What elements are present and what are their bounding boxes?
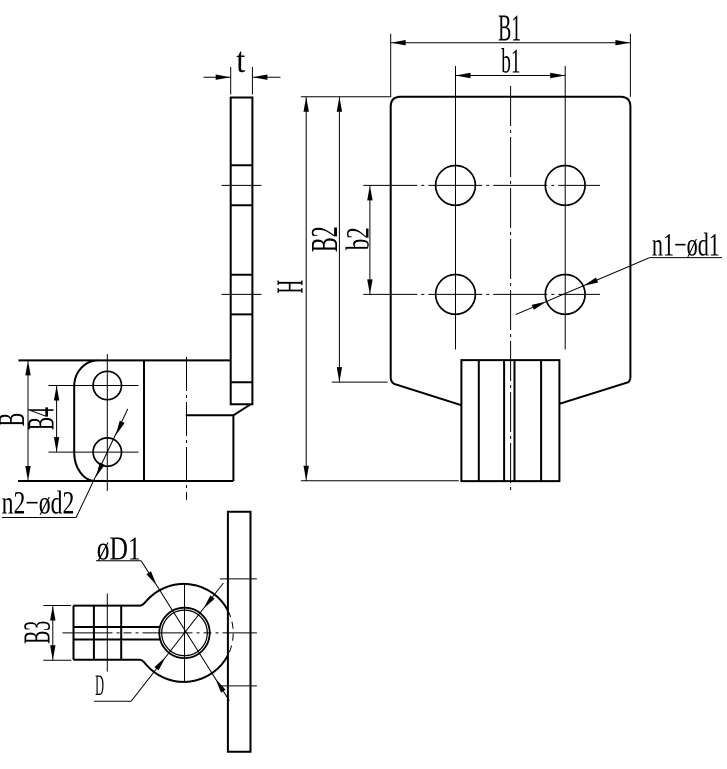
side view hole 1 bottom edge [231,204,253,206]
svg-text:t: t [236,40,245,80]
hole centerline vertical (middle view) [106,354,108,491]
boss axis centerline (middle view) [186,357,188,500]
hole d1 bottom-right [545,275,585,315]
pad tick lower [220,685,257,687]
dimension B2 line [337,97,342,382]
dimension t right arrow [252,75,280,80]
leader n2-d2 [76,409,128,518]
pad tick upper [220,578,257,580]
svg-text:B4: B4 [20,407,63,430]
svg-text:B2: B2 [303,226,346,252]
hole d2 upper [93,371,121,399]
dimension H line [304,97,309,481]
clamp body step edge [186,415,234,481]
tube block outline [461,360,559,481]
fork slot lower line [74,639,161,641]
clamp body top edge [18,359,230,361]
dimension D1 diagonal [141,561,229,701]
tube block edge 3 [514,360,516,481]
clamp body chamfer [233,404,250,415]
leader n1-d1 [516,258,650,315]
dimension b1 line [456,73,566,78]
dimension B4 line [54,386,59,453]
label ∅D1 [96,529,141,567]
fork bottom edge [74,660,147,665]
svg-text:n2−ød2: n2−ød2 [2,485,75,522]
side view hole 1 top edge [231,164,253,166]
dimension D diagonal [131,583,223,701]
hole d2 lower [93,438,121,466]
hole column line left [455,66,457,350]
label n2-∅d2 [2,485,76,522]
svg-text:B3: B3 [16,621,59,644]
clamp body inner edge [143,360,145,481]
clamp body bottom edge [18,480,233,482]
hole row line lower [363,293,600,295]
dimension B3 line [50,606,55,661]
front plate outline [391,97,631,379]
dimension H extension lines [301,97,459,481]
front plate right taper [560,378,631,404]
boss outer circle hidden arc [228,611,233,656]
front vertical centerline [510,86,512,491]
hole row line upper [363,184,600,186]
fork left edge [73,606,75,660]
boss horizontal centerline [63,632,257,634]
hole row line upper (middle view) [49,385,139,387]
boss outer circle solid arc lower [146,655,228,682]
hole column line right [564,66,566,350]
boss bore circle outer [159,608,209,658]
svg-text:D: D [95,669,104,702]
dimension B2 extension line [332,381,388,383]
fork hole edge left [93,606,95,660]
clamp body lobe outline [74,360,98,481]
fork top edge [74,601,147,605]
fork hole centerline [106,594,108,672]
hole row line lower (middle view) [49,451,139,453]
label D [94,669,131,702]
side view hole 2 top edge [231,274,253,276]
dimension t extension lines [231,67,253,95]
fork hole edge right [120,606,122,660]
boss outer circle solid arc upper [146,584,228,611]
side view hole 2 bottom edge [231,313,253,315]
tube block edge 4 [540,360,542,481]
side view hole row 2 centerline [222,293,262,295]
boss vertical centerline [184,584,186,683]
svg-text:b2: b2 [341,227,377,250]
tube block edge 1 [478,360,480,481]
dimension B line [25,360,30,481]
label n1-∅d1 [650,227,722,263]
hole d1 top-left [436,166,476,206]
fork slot upper line [74,626,161,628]
dimension B1 line [391,40,631,45]
boss bore circle inner [162,610,208,656]
svg-text:H: H [270,280,312,294]
front plate left taper [391,378,461,405]
hole d1 top-right [545,166,585,206]
side view hole row 1 centerline [222,184,262,186]
side view pad bend line [231,381,253,383]
side view pad outline [231,98,253,405]
tube block edge 2 [503,360,505,481]
hole d1 bottom-left [436,275,476,315]
pad edge-on outline (bottom view) [228,512,251,752]
svg-text:n1−ød1: n1−ød1 [652,227,720,263]
svg-text:b1: b1 [501,43,520,81]
dimension B3 extension lines [43,606,71,661]
dimension b2 line [367,185,372,294]
dimension B1 extension lines [391,34,631,97]
dimension t left arrow [204,75,231,80]
svg-text:øD1: øD1 [97,529,141,567]
